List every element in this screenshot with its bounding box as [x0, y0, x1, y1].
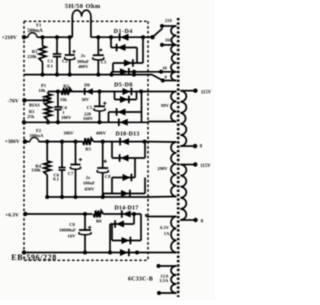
- svg-text:0.1: 0.1: [47, 64, 53, 69]
- svg-text:5H/50 Ohm: 5H/50 Ohm: [65, 3, 101, 10]
- svg-text:D14-D17: D14-D17: [114, 205, 138, 211]
- svg-text:6C33C-B: 6C33C-B: [128, 277, 153, 283]
- svg-text:16V: 16V: [68, 234, 77, 239]
- svg-text:115V: 115V: [201, 91, 212, 96]
- svg-text:C3: C3: [101, 59, 107, 64]
- svg-text:160V: 160V: [83, 116, 94, 121]
- svg-text:400V: 400V: [78, 64, 89, 69]
- svg-text:-76V: -76V: [8, 98, 19, 104]
- svg-text:R2: R2: [63, 83, 69, 88]
- svg-text:3.5A: 3.5A: [159, 278, 169, 283]
- svg-text:25k: 25k: [27, 114, 35, 119]
- svg-text:+6.3V: +6.3V: [5, 212, 19, 218]
- svg-text:C2: C2: [62, 59, 68, 64]
- svg-text:C9: C9: [69, 222, 75, 227]
- svg-text:2x: 2x: [81, 53, 86, 58]
- svg-text:290V: 290V: [157, 166, 168, 171]
- svg-text:+210V: +210V: [2, 35, 17, 41]
- svg-text:C7: C7: [68, 171, 74, 176]
- svg-text:R1: R1: [32, 49, 38, 54]
- svg-text:D9: D9: [84, 82, 90, 87]
- svg-text:16k: 16k: [60, 97, 68, 102]
- svg-text:100mA: 100mA: [29, 133, 44, 138]
- svg-text:10000uF: 10000uF: [59, 228, 76, 233]
- svg-text:R5: R5: [85, 146, 91, 151]
- svg-text:406V: 406V: [96, 130, 107, 135]
- svg-text:220k: 220k: [27, 54, 37, 59]
- svg-text:386V: 386V: [63, 130, 74, 135]
- svg-text:C8: C8: [105, 174, 111, 179]
- svg-text:0.1: 0.1: [53, 177, 59, 182]
- svg-text:6.3V: 6.3V: [160, 225, 170, 230]
- svg-text:1A: 1A: [164, 231, 170, 236]
- svg-text:F1: F1: [36, 22, 42, 27]
- svg-text:EB-596/228: EB-596/228: [11, 253, 57, 262]
- svg-text:500mA: 500mA: [27, 28, 43, 34]
- svg-text:450V: 450V: [84, 187, 95, 192]
- svg-text:115V: 115V: [200, 164, 211, 169]
- svg-text:100uF: 100uF: [83, 181, 95, 186]
- svg-text:C5: C5: [87, 105, 93, 110]
- svg-text:330k: 330k: [31, 167, 41, 172]
- svg-text:100V: 100V: [61, 115, 72, 120]
- svg-text:30V: 30V: [81, 97, 90, 102]
- svg-text:D10-D13: D10-D13: [115, 131, 139, 137]
- svg-text:99V: 99V: [161, 103, 170, 108]
- svg-text:D1-D4: D1-D4: [114, 29, 133, 35]
- svg-text:BIAS: BIAS: [29, 102, 40, 107]
- svg-text:10k: 10k: [38, 88, 46, 93]
- svg-text:D5-D8: D5-D8: [114, 82, 133, 88]
- svg-text:R6: R6: [96, 219, 102, 224]
- svg-text:210: 210: [165, 18, 173, 23]
- svg-text:+386V: +386V: [5, 139, 20, 145]
- svg-text:10: 10: [162, 66, 167, 71]
- svg-text:2x: 2x: [86, 175, 91, 180]
